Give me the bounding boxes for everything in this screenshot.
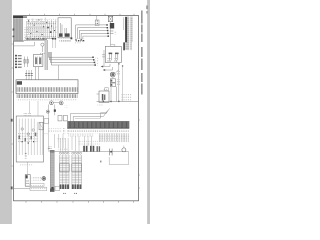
cluster junction dots <box>47 27 49 29</box>
right margin vertical title text <box>141 11 142 95</box>
mid specks cluster <box>57 137 66 141</box>
bundle left edge connector marks <box>13 28 15 30</box>
connector mark at U1 lead <box>71 37 73 39</box>
wires entering K1 from left <box>102 54 105 56</box>
dark pin blob right of staircase <box>110 23 114 29</box>
wires down from label rows <box>55 134 64 148</box>
component on drop wire <box>46 110 49 113</box>
connector label C110 <box>75 43 82 45</box>
small sensor G1 with circle <box>41 43 44 46</box>
sub connector rows block <box>123 42 132 50</box>
inline connector ticks on sensor wires <box>25 74 33 76</box>
top connector tabs on instrument box <box>24 113 27 116</box>
connector pair BLK2 <box>90 146 92 152</box>
connector rows block top-right <box>125 17 133 42</box>
inline connector bars <box>109 149 111 156</box>
wire from left border to module <box>13 187 30 189</box>
staircase wire 1 <box>76 25 107 39</box>
wire below relay stack left drop <box>110 87 112 102</box>
connector strip under module lower <box>30 187 47 190</box>
sender label rows mid-left <box>15 55 22 68</box>
G1 lead wire <box>41 46 43 52</box>
nested corner wires into fuse band <box>70 109 109 122</box>
sensor circle lower-right <box>122 148 126 152</box>
wire drop left below circle <box>48 105 50 115</box>
vertical wire left of K1 <box>103 50 105 66</box>
sensor circle D1 <box>59 101 63 105</box>
output sensor circle below U2 <box>50 101 54 105</box>
label specks right of relays <box>116 79 121 86</box>
wire from motor to vertical <box>115 70 119 74</box>
gray strip dark feet <box>50 189 54 192</box>
long wire right of instrument box <box>48 114 50 150</box>
schematic frame border <box>14 16 139 201</box>
grid letter left B <box>11 187 13 190</box>
text specks right <box>65 105 69 107</box>
wire up from module <box>26 162 28 175</box>
label specks right of motor <box>116 71 120 76</box>
faint wire above band <box>75 118 100 120</box>
terminal labels right of dots <box>96 57 99 67</box>
ladder connector column B <box>72 152 82 194</box>
relay boxes pair K2 K3 <box>58 115 62 121</box>
rail junction dots <box>103 101 104 102</box>
wire below relay stack right drop <box>116 87 118 102</box>
wire drop mid <box>54 105 56 116</box>
staircase wire 4 <box>81 33 109 39</box>
tab above D2 <box>105 88 108 91</box>
second long vertical wire <box>122 66 124 102</box>
arrowhead 2 <box>103 69 106 71</box>
U1 right edge lead wire <box>70 20 72 37</box>
junction block gray strip bottom-left-center <box>50 150 55 192</box>
sensor box S1 mid-left <box>33 55 43 67</box>
resistor R1 <box>24 57 26 68</box>
label specks below rail <box>98 103 104 106</box>
fuse panel band bottom rail <box>67 127 129 129</box>
S1 internal symbols <box>36 57 41 65</box>
cluster text specks <box>26 20 57 23</box>
staircase terminal dots <box>106 24 109 37</box>
U2 internal pin comb <box>17 87 78 92</box>
staircase wire 2 <box>78 28 108 39</box>
connector pair BLK3 <box>97 146 98 151</box>
frame tick marks right <box>139 120 140 188</box>
fuse panel dense comb band <box>67 122 129 128</box>
corner of fuse panel box <box>101 113 108 119</box>
wire bundle top-left dark header <box>13 16 23 18</box>
hanging stub wires from band center-left <box>68 134 94 137</box>
U2 name plate <box>17 81 22 85</box>
bottom-left ground module box <box>25 175 30 187</box>
resistor R2 <box>27 57 29 68</box>
component at far left of row <box>48 146 51 152</box>
ECU box U2 <box>16 80 78 94</box>
wire left of connector block <box>123 17 125 30</box>
connector pair BLK1 <box>83 146 85 152</box>
long drop wires to lower connectors <box>60 136 91 152</box>
wire from U2 down to instrument box <box>37 101 39 116</box>
bundle bottom rail wire <box>13 40 24 42</box>
K1 top tab <box>111 45 115 47</box>
stepped wires with arrows mid-right <box>103 64 110 67</box>
cluster base rail wire <box>13 40 47 42</box>
small sensor symbol below border <box>95 20 99 26</box>
dark dot connector <box>51 187 53 189</box>
wire entering U2 top from four wire group <box>58 65 60 80</box>
staircase foot connector cluster <box>75 39 84 42</box>
U2 external pin comb <box>17 94 78 98</box>
frame tick marks left <box>12 44 13 166</box>
drop wire from top border at G zone <box>96 16 98 21</box>
diode box D2 bottom-right <box>99 91 109 102</box>
connector squares below cluster <box>52 38 54 40</box>
four wire group mid-left <box>48 52 95 65</box>
four wire terminal dots <box>92 57 96 66</box>
staircase wire 5 <box>83 36 109 39</box>
hanging wire stubs under band right <box>99 133 130 141</box>
staircase wire 3 <box>79 31 108 40</box>
right gray margin band <box>147 0 150 224</box>
fuse symbols F1 F2 <box>63 128 65 133</box>
long vertical wire right <box>118 63 120 102</box>
gauge sub box with lamp <box>39 122 44 130</box>
arrowhead 1 <box>101 66 104 68</box>
indicator lamp crossed box top-right <box>108 16 112 22</box>
wire into D2 from left <box>97 93 100 95</box>
U1 label text below <box>60 39 71 42</box>
pin marks below blob <box>110 29 114 35</box>
K1 internal contact symbols <box>109 54 117 61</box>
label rows left of band <box>48 128 62 132</box>
vertical harness bundle left-center <box>45 40 48 70</box>
fuse labels under band <box>68 129 129 133</box>
fuse panel band top rail <box>67 121 129 123</box>
lamp lead wire down <box>110 22 112 45</box>
paper background <box>0 0 150 224</box>
component cluster top-middle <box>27 18 56 40</box>
frame tick marks top <box>30 14 135 16</box>
horn symbol circle <box>42 177 46 181</box>
stub wires below connector squares <box>52 40 54 49</box>
box U1 top-middle <box>58 18 71 38</box>
U1 internal symbols <box>60 23 66 35</box>
internal gauge wires <box>19 119 42 156</box>
grid letter left A <box>11 119 13 122</box>
U1 internal dark row <box>59 33 63 36</box>
connector strip under module upper <box>30 183 44 186</box>
marks mid of long wire <box>45 132 48 136</box>
wire from U2 down at col 29 <box>29 101 31 113</box>
label specks right of D2 <box>122 94 133 101</box>
gauge element symbols <box>18 132 38 142</box>
stub dot <box>100 161 101 163</box>
ground rail wire <box>97 101 139 103</box>
text row above BLK pairs <box>78 141 100 145</box>
connector on long wire <box>47 147 49 150</box>
relay box K1 mid-right <box>105 46 121 62</box>
junction dot <box>110 151 112 153</box>
motor symbol M1 <box>110 72 115 77</box>
small connector left of ladders <box>55 186 60 190</box>
junction dot on mid drop <box>54 109 56 111</box>
relay contact boxes mid-right <box>110 79 115 83</box>
wire bundle top-left body <box>13 18 22 41</box>
connector dots at vertical tops <box>118 63 119 64</box>
page number text top right <box>146 6 147 10</box>
pin number text row <box>17 99 78 101</box>
frame tick marks bottom <box>26 201 134 203</box>
wire label column right of bundle <box>24 27 29 41</box>
wires from sensors down to ECU <box>26 67 38 80</box>
vertical label text in instrument box <box>24 152 26 159</box>
instrument cluster box bottom-left <box>16 116 43 162</box>
arrow wire from circle <box>53 101 59 103</box>
ground wire below bundle <box>13 42 34 46</box>
marks above D2 <box>104 88 109 90</box>
lower-right distribution wire <box>50 151 129 153</box>
text under instrument box <box>20 164 33 167</box>
left gray margin band <box>0 0 12 224</box>
label text right of module <box>32 176 41 180</box>
G1 connector specks <box>40 52 44 55</box>
return loop wire <box>109 152 129 165</box>
ladder connector column A <box>59 152 69 194</box>
specks under drop wires <box>58 149 68 153</box>
